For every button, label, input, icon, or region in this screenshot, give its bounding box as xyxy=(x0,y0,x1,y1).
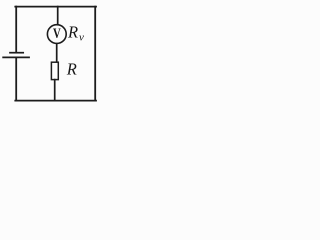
wire top xyxy=(15,6,96,8)
wire left upper xyxy=(15,7,17,52)
wire right xyxy=(94,7,96,101)
wire voltmeter stub xyxy=(57,7,59,25)
wire resistor to bottom xyxy=(54,80,56,101)
svg-text:R: R xyxy=(67,22,78,41)
battery B1 plate long xyxy=(3,56,29,58)
svg-text:R: R xyxy=(66,59,77,78)
svg-text:V: V xyxy=(53,26,61,42)
resistor R body xyxy=(51,62,58,79)
voltmeter U1 circle xyxy=(47,25,66,44)
svg-text:v: v xyxy=(79,32,84,44)
battery B1 plate short xyxy=(10,52,23,54)
wire bottom xyxy=(15,100,96,102)
wire voltmeter to resistor xyxy=(56,44,58,63)
wire left lower xyxy=(15,58,17,101)
